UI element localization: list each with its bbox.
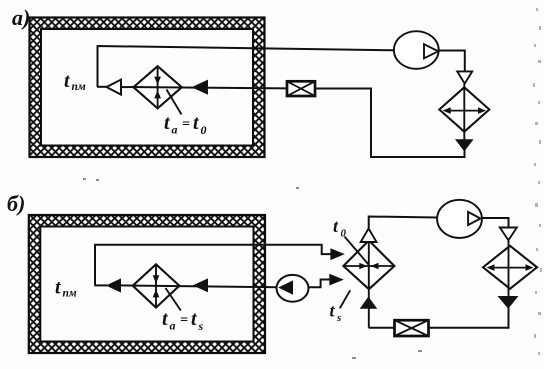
heat exchanger diamond (column A) [439,84,489,140]
heat exchanger diamond (column B) [483,240,537,296]
wire: room A exhaust riser and top line to fan [97,46,395,87]
svg-text:б): б) [7,191,25,216]
fan circle (figure A) [394,31,439,69]
scan speckle noise, right margin [533,8,542,355]
wire: mixer top riser and top line to fan B [369,217,438,229]
open down triangle (valve, column B) [500,228,517,241]
filled flow arrow toward room diamond B (points left) [193,278,208,292]
supply outlet open triangle (room A) [107,80,122,95]
svg-text:пм: пм [72,81,86,93]
svg-text:=: = [180,313,188,328]
label t_0 with leader [333,216,369,265]
leader line for t_a = t_s [166,288,181,311]
leader line for t_a = t_0 [167,90,182,115]
filled down triangle (flow arrow, column B) [498,296,519,309]
svg-text:0: 0 [201,123,207,137]
air diffuser diamond (room A) [134,66,182,108]
wire: small fan to mixer lower jog [309,280,331,288]
label t_s with leader [330,290,351,324]
wire: bottom return line figure B [369,305,509,328]
filled down triangle (flow arrow, column A) [455,139,474,151]
svg-text:s: s [198,319,204,333]
wire: heater to down duct, bottom return of right column A [315,89,465,158]
svg-text:а: а [170,319,176,333]
air diffuser diamond (room B) [133,264,180,307]
svg-text:s: s [336,312,341,324]
svg-text:=: = [182,117,190,132]
label t_a = t_s [162,308,204,333]
recirculation heater X-box (figure B) [395,320,429,336]
room B wall (hatched) [29,215,265,353]
filled arrow upper inlet to mixer (points right) [330,248,344,260]
open up triangle above mixer [361,229,377,243]
label t_pm (room B) [55,277,77,300]
filled supply arrow into room B (points left) [106,278,121,292]
wire: room B supply mid line to small fan [120,285,277,287]
wire: room A supply mid line through wall to heater [120,87,287,88]
filled arrow lower inlet to mixer (points right) [329,274,344,286]
wire: fan A to right column [439,51,465,73]
filled up triangle below mixer (flow arrow) [360,297,378,309]
svg-text:пм: пм [63,288,77,300]
recirculation fan circle (figure B) [277,275,309,302]
fan circle (figure B) [437,200,482,238]
stray scan dots [83,178,422,359]
heater X-box (figure A) [287,81,315,96]
wire: fan B to right column [482,218,509,228]
filled flow arrow into room A (points left) [192,80,209,95]
arrows inside diffuser diamond (room A) [154,77,161,99]
arrows inside diffuser diamond (room B) [153,275,160,297]
open down triangle (valve, column A) [457,71,472,83]
label t_pm (room A) [64,70,86,93]
wire: room B exhaust riser and top line to mixer jog [95,245,332,286]
room A wall (hatched) [30,18,265,158]
svg-text:а): а) [12,5,30,30]
label t_a = t_0 [164,112,207,137]
svg-text:а: а [172,123,178,137]
mixing box diamond (figure B) [343,241,394,328]
